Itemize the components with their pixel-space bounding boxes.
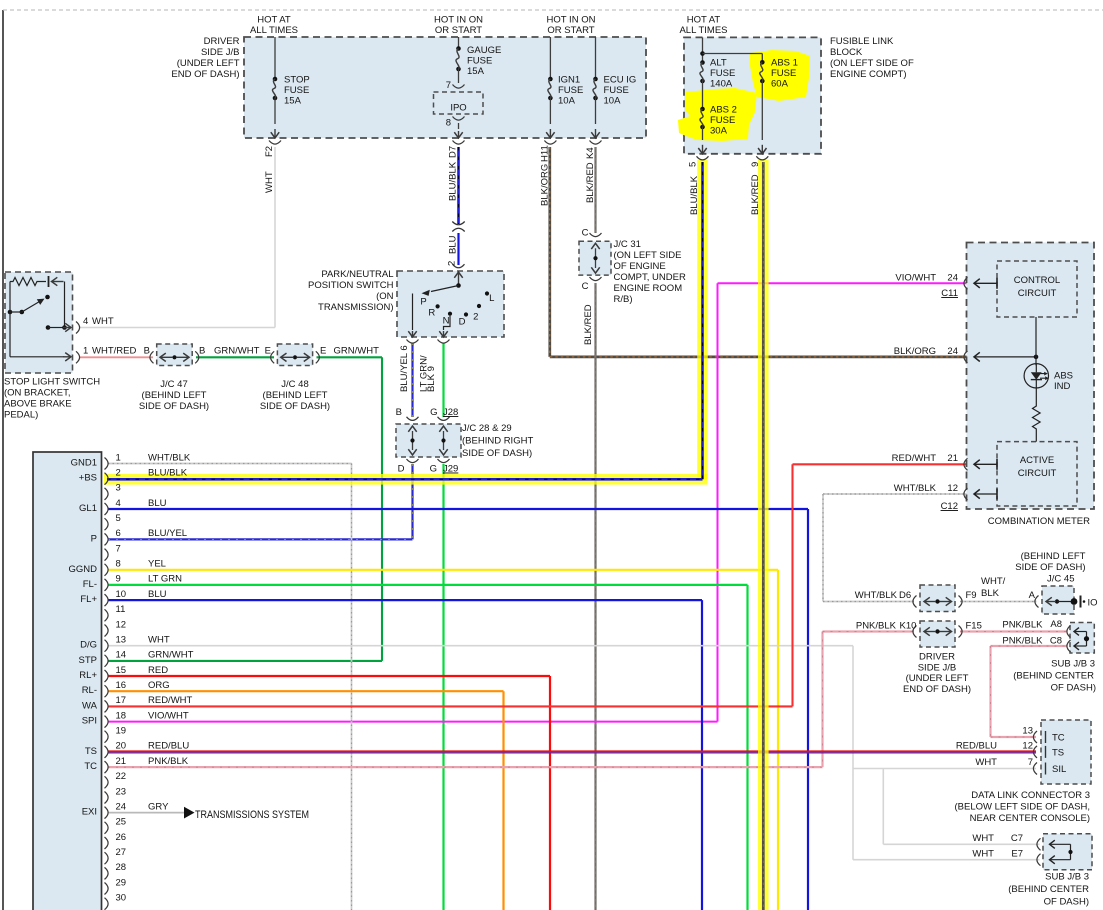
pin 12 connector bracket [105, 625, 109, 637]
svg-text:4: 4 [116, 498, 121, 509]
arrow into pin 24 [974, 356, 1036, 358]
svg-text:D7: D7 [448, 146, 459, 158]
svg-text:E7: E7 [1011, 849, 1023, 860]
svg-text:J/C 47: J/C 47 [160, 379, 187, 390]
svg-text:BLOCK: BLOCK [830, 47, 863, 58]
fuse ECU IG FUSE 10A [595, 37, 597, 79]
contact arrow pointing left [52, 281, 64, 283]
pin 9 connector bracket [105, 579, 109, 591]
svg-text:A: A [1029, 590, 1036, 601]
svg-text:SIDE OF DASH): SIDE OF DASH) [139, 401, 209, 412]
meter pin 24 BLK/ORG bracket [964, 351, 968, 363]
svg-text:R: R [428, 308, 435, 319]
wire BLU/YEL from J/C 29 D pin down [411, 464, 413, 539]
pin 23 connector bracket [105, 792, 109, 804]
J/C 45 IO terminal dot [1071, 598, 1078, 605]
junction block SUB J/B 3 (A8 C8) box [1070, 623, 1094, 654]
svg-text:TC: TC [84, 761, 97, 772]
selector arm toward P [431, 286, 459, 292]
wire PNK/BLK into data link connector 3 pin 13 TC [991, 736, 1037, 738]
svg-text:20: 20 [116, 741, 127, 752]
J/C 31 internal arrows [591, 243, 599, 249]
yellow highlight band on BLK/RED net from fuse pin 9 [758, 160, 769, 910]
wire RED/WHT into pin 17 WA [108, 705, 793, 707]
meter pin 12 bracket [964, 488, 968, 500]
svg-text:SIDE OF DASH): SIDE OF DASH) [260, 401, 330, 412]
svg-text:J/C 48: J/C 48 [281, 379, 308, 390]
svg-text:OF ENGINE: OF ENGINE [614, 261, 666, 272]
svg-text:C7: C7 [1011, 833, 1023, 844]
svg-text:15: 15 [116, 665, 127, 676]
meter pin 21 bracket [964, 458, 968, 470]
pin 26 connector bracket [105, 837, 109, 849]
svg-text:7: 7 [446, 80, 451, 91]
svg-text:DRIVER: DRIVER [919, 652, 955, 663]
contact dot L [485, 291, 489, 295]
inline connector joint on BLU/BLK-BLU wire [452, 222, 464, 225]
svg-text:D: D [459, 317, 466, 328]
svg-text:HOT AT: HOT AT [257, 15, 291, 26]
wire RED pin 15 RL+ [108, 675, 550, 677]
arrow into pin 21 [974, 463, 997, 465]
data link connector pin 12 bracket [1033, 746, 1037, 758]
wire LT GRN from J/C 29 G pin down to bottom [442, 464, 444, 910]
J/C 45 left bracket A [1035, 596, 1039, 608]
wire BLU pin 10 FL+ [108, 599, 702, 601]
wire PNK/BLK from SUB J/B 3 C8 going left [991, 645, 1067, 647]
svg-text:WHT/BLK: WHT/BLK [855, 590, 898, 601]
svg-text:RED/BLU: RED/BLU [956, 741, 997, 752]
svg-text:TRANSMISSION): TRANSMISSION) [318, 302, 393, 313]
svg-text:DATA LINK CONNECTOR 3: DATA LINK CONNECTOR 3 [971, 790, 1090, 801]
svg-text:(ON BRACKET,: (ON BRACKET, [4, 388, 71, 399]
svg-text:C: C [582, 281, 589, 292]
svg-text:WA: WA [82, 700, 98, 711]
J/C 28 right bracket G (top) [438, 417, 450, 421]
svg-text:RL+: RL+ [79, 670, 97, 681]
fuse IGN1 FUSE 10A [549, 37, 551, 79]
svg-text:60A: 60A [771, 79, 789, 90]
svg-text:23: 23 [116, 786, 127, 797]
pin 24 connector bracket [105, 807, 109, 819]
svg-text:GL1: GL1 [79, 503, 97, 514]
wire BLU/BLK vertical to fusible link pin 5 (highlighted) [701, 162, 704, 479]
svg-text:2: 2 [116, 468, 121, 479]
wire BLK/RED from K4 down to J/C 31 [594, 147, 596, 233]
svg-text:WHT: WHT [972, 833, 994, 844]
svg-text:SIDE J/B: SIDE J/B [918, 663, 957, 674]
svg-text:K10: K10 [900, 621, 917, 632]
J/C 28-29 internal arrows right [439, 426, 447, 432]
svg-text:10: 10 [116, 589, 127, 600]
svg-text:RED/BLU: RED/BLU [148, 741, 189, 752]
wire from N contact down to G pin [444, 316, 451, 330]
svg-text:13: 13 [1022, 726, 1033, 737]
wire BLK/RED from fusible link pin 9 down to bottom (highlighted) [762, 162, 765, 910]
svg-text:J28: J28 [443, 407, 458, 418]
pin 10 connector bracket [105, 594, 109, 606]
svg-text:(ON LEFT SIDE OF: (ON LEFT SIDE OF [830, 58, 914, 69]
contact dot D [464, 312, 468, 316]
bracket D6 [913, 596, 917, 608]
bracket E7 [1037, 854, 1041, 866]
svg-text:PARK/NEUTRAL: PARK/NEUTRAL [321, 269, 393, 280]
component: STOP LIGHT SWITCH box [5, 272, 73, 373]
svg-text:IND: IND [1054, 381, 1071, 392]
component: COMBINATION METER outer box [967, 243, 1095, 510]
svg-text:BLU/YEL: BLU/YEL [148, 528, 187, 539]
svg-text:WHT: WHT [92, 316, 114, 327]
bracket C8 [1067, 640, 1071, 652]
wire WHT/BLK pin 1 GND1 [108, 463, 352, 465]
svg-text:SIL: SIL [1052, 764, 1066, 775]
svg-text:ALL TIMES: ALL TIMES [679, 25, 727, 36]
arrow into pin 12 [974, 493, 997, 495]
pin 27 connector bracket [105, 852, 109, 864]
svg-text:PNK/BLK: PNK/BLK [1002, 636, 1043, 647]
svg-text:SUB J/B 3: SUB J/B 3 [1045, 872, 1089, 883]
svg-text:FL+: FL+ [80, 594, 97, 605]
svg-text:CIRCUIT: CIRCUIT [1018, 468, 1057, 479]
yellow highlighter blob over ALT / ABS 2 FUSE [678, 88, 757, 141]
wire PNK/BLK into driver side J/B K10 [823, 630, 915, 632]
wire WHT/BLK vertical down to bottom [351, 464, 353, 910]
pin 7 of IPO [453, 85, 465, 89]
svg-text:BLK: BLK [981, 588, 1000, 599]
svg-text:(UNDER LEFT: (UNDER LEFT [177, 58, 240, 69]
ACTIVE CIRCUIT box [997, 442, 1077, 506]
svg-text:END OF DASH): END OF DASH) [903, 684, 971, 695]
wire VIO/WHT into pin 18 SPI [108, 721, 718, 723]
IO terminal bar and bracket [1080, 596, 1082, 608]
wire BLU/BLK from D7 down to inline connector [457, 147, 460, 224]
svg-text:GRY: GRY [148, 801, 169, 812]
wire GRN/WHT J/C 47 to J/C 48 [196, 356, 274, 358]
svg-text:12: 12 [116, 619, 127, 630]
wire BLU/YEL into pin 6 P [108, 538, 413, 540]
svg-text:27: 27 [116, 847, 127, 858]
svg-text:30: 30 [116, 893, 127, 904]
wire BLU pin 4 vertical down to bottom [807, 509, 809, 910]
contact dot R [436, 304, 440, 308]
svg-text:HOT IN ON: HOT IN ON [547, 15, 596, 26]
fuse ABS 2 FUSE 30A [700, 107, 705, 112]
pin 30 connector bracket [105, 898, 109, 910]
bracket F15 [959, 626, 963, 638]
wire WHT pin 13 D/G [108, 645, 853, 647]
J/C 47 internal arrows and node [172, 355, 176, 359]
svg-text:9: 9 [750, 162, 761, 167]
resistor inside combination meter [1035, 388, 1037, 404]
wire control circuit to junction [1035, 317, 1037, 365]
svg-text:IPO: IPO [450, 103, 466, 114]
svg-text:WHT/BLK: WHT/BLK [894, 483, 937, 494]
wire LT GRN pin 9 FL- [108, 584, 748, 586]
pin 16 connector bracket [105, 685, 109, 697]
wire WHT from stop light switch pin 4 to F2 (horizontal) [79, 327, 275, 329]
bracket K10 [913, 626, 917, 638]
svg-text:TS: TS [1052, 748, 1064, 759]
svg-text:CONTROL: CONTROL [1014, 275, 1060, 286]
wire WHT/BLK into driver side J/B D6 [823, 601, 914, 603]
wire RED/BLU pin 20 TS to data link connector 3 pin 12 [108, 752, 1036, 754]
svg-text:F9: F9 [966, 590, 977, 601]
yellow highlighter blob over ABS 1 FUSE [750, 50, 810, 101]
svg-text:COMBINATION METER: COMBINATION METER [988, 516, 1090, 527]
svg-text:+BS: +BS [79, 473, 97, 484]
svg-text:ORG: ORG [148, 680, 170, 691]
svg-text:12: 12 [1022, 741, 1033, 752]
svg-text:(BEHIND RIGHT: (BEHIND RIGHT [462, 436, 533, 447]
J/C 31 bottom bracket C [590, 277, 602, 281]
svg-text:E: E [265, 346, 271, 357]
svg-text:B: B [144, 346, 150, 357]
pin 5 connector bracket [105, 518, 109, 530]
svg-text:PNK/BLK: PNK/BLK [148, 756, 189, 767]
junction block driver side J/B: D6-F9 box [920, 585, 955, 612]
svg-text:RED: RED [148, 665, 168, 676]
wire inside fusible link block [702, 37, 704, 62]
svg-text:RED/WHT: RED/WHT [148, 695, 193, 706]
svg-text:ABOVE BRAKE: ABOVE BRAKE [4, 399, 72, 410]
pin B bracket bottom edge [407, 340, 419, 344]
wire inside switch right vertical [64, 282, 66, 328]
junction connector J/C 31 box [579, 241, 611, 275]
svg-text:D: D [398, 464, 405, 475]
pin 19 connector bracket [105, 731, 109, 743]
svg-text:7: 7 [1028, 757, 1033, 768]
wire PNK/BLK vertical down to data link connector pin 13 row [989, 646, 991, 737]
svg-text:ALT: ALT [710, 58, 727, 69]
wire LT GRN/BLK park/neutral N pin to J/C 28 [442, 343, 444, 417]
wire GRN/WHT vertical down to STP pin 14 row [381, 357, 383, 661]
svg-text:1: 1 [83, 346, 88, 357]
svg-text:WHT/RED: WHT/RED [92, 346, 136, 357]
wire BLK/ORG from H11 down [548, 147, 551, 357]
junction connector J/C 45 box [1042, 586, 1074, 614]
switch common node [456, 283, 461, 288]
wire WHT branch to SIL of data link connector 3 [853, 768, 1036, 770]
svg-text:3: 3 [116, 483, 121, 494]
svg-text:28: 28 [116, 862, 127, 873]
junction block SUB J/B 3 (C7 E7) box [1043, 834, 1092, 870]
svg-text:GND1: GND1 [71, 458, 97, 469]
svg-text:10A: 10A [604, 96, 622, 107]
pin H11 connector bracket [544, 141, 556, 145]
junction connector J/C 47 box [157, 344, 193, 366]
svg-text:HOT AT: HOT AT [687, 15, 721, 26]
pin 14 connector bracket [105, 655, 109, 667]
wire VIO/WHT from meter C11 going left [718, 282, 967, 284]
svg-text:8: 8 [446, 118, 451, 129]
svg-text:2: 2 [473, 312, 478, 323]
J/C 31 top bracket C [590, 233, 602, 237]
contact dot 2 [477, 304, 481, 308]
svg-text:E: E [320, 346, 326, 357]
svg-text:P: P [91, 533, 97, 544]
pin 15 connector bracket [105, 670, 109, 682]
IPO relay box [434, 92, 484, 114]
svg-text:4: 4 [83, 316, 88, 327]
svg-text:11: 11 [116, 604, 126, 615]
svg-text:24: 24 [947, 346, 958, 357]
svg-text:5: 5 [116, 513, 121, 524]
component: ABS control module connector block [33, 452, 102, 910]
arrow to TRANSMISSIONS SYSTEM [184, 807, 195, 819]
junction connector J/C 28 & 29 box [396, 424, 461, 457]
fixed contact bar [48, 276, 50, 287]
svg-text:J29: J29 [443, 464, 458, 475]
svg-text:STP: STP [79, 655, 97, 666]
svg-text:OR START: OR START [547, 25, 594, 36]
junction block: DRIVER SIDE J/B (top) [244, 37, 646, 138]
svg-text:ENGINE COMPT): ENGINE COMPT) [830, 69, 907, 80]
data link connector pin 7 bracket [1033, 763, 1037, 775]
pin 20 connector bracket [105, 746, 109, 758]
svg-text:BLU: BLU [148, 498, 167, 509]
svg-text:ALL TIMES: ALL TIMES [250, 25, 298, 36]
svg-text:P: P [420, 297, 426, 308]
svg-text:(ON LEFT SIDE: (ON LEFT SIDE [614, 250, 682, 261]
svg-text:RL-: RL- [82, 685, 97, 696]
svg-text:STOP LIGHT SWITCH: STOP LIGHT SWITCH [4, 377, 100, 388]
svg-text:FUSE: FUSE [710, 68, 735, 79]
junction connector J/C 48 box [277, 344, 312, 366]
CONTROL CIRCUIT box [997, 261, 1077, 317]
pin 3 connector bracket [105, 488, 109, 500]
svg-text:(BEHIND CENTER: (BEHIND CENTER [1013, 671, 1094, 682]
wire RED vertical down to bottom [549, 676, 551, 910]
wire BLU pin 4 GL1 [108, 508, 808, 510]
J/C 48 internal arrows and node [293, 355, 297, 359]
meter pin C11 bracket [964, 277, 968, 289]
pin 13 connector bracket [105, 640, 109, 652]
switch arm pivot dots [8, 310, 13, 315]
wire WHT vertical up to DRIVER SIDE J/B pin F2 [274, 147, 276, 328]
wire PNK/BLK from F15 to SUB J/B 3 A8 [960, 630, 1067, 632]
SUB J/B 3 internal link C7-E7 [1070, 844, 1072, 859]
svg-text:FUSE: FUSE [604, 85, 629, 96]
svg-text:HOT IN ON: HOT IN ON [434, 15, 483, 26]
svg-text:24: 24 [947, 273, 958, 284]
page border left [2, 10, 4, 910]
svg-text:12: 12 [947, 483, 958, 494]
pin 21 connector bracket [105, 761, 109, 773]
SUB J/B 3 internal link A8-C8 [1086, 632, 1088, 647]
wire GRN/WHT from J/C 48 going right [317, 356, 383, 358]
wire BLU/YEL park/neutral B pin to J/C 28 [411, 343, 413, 417]
svg-text:BLU: BLU [448, 235, 459, 254]
svg-text:B: B [396, 407, 402, 418]
wire WHT/BLK from meter pin 12 left [823, 493, 967, 495]
svg-text:BLK/RED: BLK/RED [750, 174, 761, 215]
svg-text:GRN/WHT: GRN/WHT [334, 346, 380, 357]
svg-text:J/C 45: J/C 45 [1047, 574, 1074, 585]
svg-text:(UNDER LEFT: (UNDER LEFT [906, 673, 969, 684]
bracket A8 [1067, 626, 1071, 638]
svg-text:B: B [199, 346, 205, 357]
wire RED/WHT from meter pin 21 left [793, 463, 967, 465]
pin 29 connector bracket [105, 883, 109, 895]
wire BLU from inline connector to park/neutral switch pin 2 [457, 233, 459, 265]
svg-text:5: 5 [688, 162, 699, 167]
svg-text:WHT/: WHT/ [981, 576, 1006, 587]
svg-text:OR START: OR START [435, 25, 482, 36]
wire GRY pin 24 EXI to transmissions system [108, 812, 184, 814]
arrow to pin 4 [63, 327, 71, 329]
wire BLU/BLK +BS pin 2 horizontal (highlighted) [107, 478, 703, 481]
node junction of ALT and ABS1 feed [700, 51, 705, 56]
svg-text:G: G [430, 407, 437, 418]
svg-text:FUSE: FUSE [710, 115, 735, 126]
wire PNK/BLK vertical up to K10 row [821, 632, 823, 768]
svg-text:WHT: WHT [975, 757, 997, 768]
svg-text:GGND: GGND [69, 564, 98, 575]
pin 17 connector bracket [105, 700, 109, 712]
svg-text:15A: 15A [467, 66, 485, 77]
svg-text:L: L [489, 293, 494, 304]
svg-text:TC: TC [1052, 733, 1065, 744]
svg-text:RED/WHT: RED/WHT [892, 453, 937, 464]
svg-text:FUSE: FUSE [284, 85, 309, 96]
svg-text:PNK/BLK: PNK/BLK [1002, 620, 1043, 631]
svg-text:OF DASH): OF DASH) [1051, 683, 1096, 694]
pin 1 connector bracket [105, 458, 109, 470]
svg-text:(BELOW LEFT SIDE OF DASH,: (BELOW LEFT SIDE OF DASH, [955, 802, 1091, 813]
pin G bracket bottom edge [438, 340, 450, 344]
arrow into pin C11 (24) [974, 282, 997, 284]
svg-text:19: 19 [116, 726, 127, 737]
svg-text:6: 6 [116, 528, 121, 539]
svg-text:BLK/RED: BLK/RED [583, 304, 594, 345]
wire BLK/ORG to combination meter pin 24 [550, 356, 967, 359]
svg-text:8: 8 [116, 559, 121, 570]
svg-text:BLU/YEL 6: BLU/YEL 6 [399, 345, 410, 392]
svg-text:BLK/ORG: BLK/ORG [894, 346, 936, 357]
J/C 48 right bracket E [316, 351, 320, 363]
contact dot N [448, 312, 452, 316]
svg-text:BLK 9: BLK 9 [426, 366, 437, 392]
svg-text:FL-: FL- [83, 579, 97, 590]
svg-text:WHT/BLK: WHT/BLK [148, 452, 191, 463]
junction block driver side J/B: K10-F15 box [920, 621, 955, 647]
svg-text:9: 9 [116, 574, 121, 585]
wire WHT/BLK from F9 to J/C 45 A [960, 601, 1037, 603]
svg-text:POSITION SWITCH: POSITION SWITCH [308, 280, 394, 291]
svg-text:STOP: STOP [284, 75, 310, 86]
pin F2 connector bracket [269, 141, 281, 145]
svg-text:IGN1: IGN1 [558, 75, 580, 86]
wire ORG vertical down to bottom [502, 691, 504, 910]
wire from P contact down to B pin [412, 294, 414, 331]
svg-text:ABS: ABS [1054, 371, 1073, 382]
svg-text:21: 21 [947, 453, 958, 464]
J/C 47 left bracket B [150, 351, 154, 363]
stop light switch pin 4 bracket [76, 322, 80, 334]
svg-text:25: 25 [116, 817, 127, 828]
wire YEL vertical down to bottom [777, 570, 779, 910]
svg-text:COMPT, UNDER: COMPT, UNDER [614, 272, 686, 283]
svg-text:F15: F15 [966, 621, 982, 632]
svg-text:VIO/WHT: VIO/WHT [148, 710, 189, 721]
pin 18 connector bracket [105, 716, 109, 728]
svg-text:ACTIVE: ACTIVE [1020, 455, 1054, 466]
svg-text:C: C [582, 228, 589, 239]
svg-text:C12: C12 [941, 501, 958, 512]
pin 6 connector bracket [105, 533, 109, 545]
J/C 29 left bracket D (bottom) [407, 459, 419, 463]
svg-text:21: 21 [116, 756, 127, 767]
